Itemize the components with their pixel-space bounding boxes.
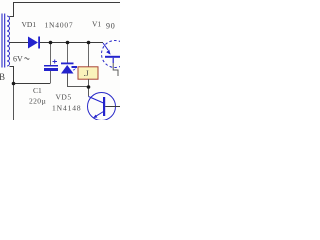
wire: C1 bottom lead: [50, 71, 52, 84]
svg-text:1N4148: 1N4148: [52, 104, 82, 113]
svg-text:1N4007: 1N4007: [45, 21, 74, 30]
svg-text:VD1: VD1: [22, 20, 37, 29]
transistor V2 base bar: [103, 97, 105, 116]
capacitor C1 plates: [44, 65, 58, 71]
transistor V2 emitter diagonal with arrow: [96, 112, 104, 117]
wire: V1 base routing: [113, 63, 118, 76]
wire: ground drop to bottom edge: [13, 84, 15, 121]
transistor V1 base stub: [112, 58, 114, 63]
svg-text:6V: 6V: [13, 55, 23, 64]
wire: VD5 cathode lead: [67, 43, 69, 64]
wire: mid tap to diode VD1: [10, 42, 29, 44]
transistor V2 circle: [88, 93, 116, 121]
svg-text:90: 90: [106, 22, 116, 31]
wire: bottom terminal riser: [10, 67, 14, 84]
wire: C1 top lead: [50, 43, 52, 66]
node dot ground rail: [12, 82, 16, 86]
wire: VD5 anode to node: [68, 74, 89, 87]
node dot on +V rail at C1: [49, 41, 53, 45]
wire: relay top lead: [88, 43, 90, 67]
wire: relay bottom lead to collector node: [88, 79, 90, 97]
wire: top terminal riser: [10, 3, 14, 17]
svg-text:V1: V1: [92, 20, 101, 29]
svg-text:C1: C1: [33, 86, 42, 95]
blue mark left of relay box: [72, 66, 78, 71]
transistor V1 emitter diagonal with arrow: [103, 43, 108, 50]
transformer B core: [2, 14, 5, 68]
svg-text:220µ: 220µ: [29, 97, 46, 106]
transistor V1 base bar: [105, 56, 120, 58]
capacitor C1 plus sign: [53, 60, 58, 64]
node dot collector node: [87, 85, 91, 89]
diode VD5: [61, 63, 74, 74]
transistor V1 dashed circle: [102, 41, 129, 68]
wire: ground rail to C1: [14, 83, 51, 85]
svg-text:.J: .J: [84, 69, 89, 78]
wire: +V rail from VD1 to V1: [40, 42, 103, 44]
diode VD1: [28, 37, 40, 49]
node dot on +V rail at VD5: [66, 41, 70, 45]
transformer B secondary winding: [7, 16, 10, 66]
wire: top rail: [13, 2, 120, 4]
transistor V2 base lead: [105, 106, 120, 108]
svg-text:VD5: VD5: [56, 93, 72, 102]
transistor V2 collector diagonal: [89, 97, 104, 104]
relay J coil box: [78, 67, 98, 79]
svg-text:B: B: [0, 72, 5, 82]
node dot on +V rail at relay: [87, 41, 91, 45]
